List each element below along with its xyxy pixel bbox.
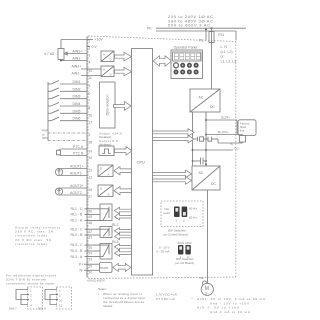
arrow CPU to RL1 coil b <box>115 214 132 220</box>
svg-text:RS485: RS485 <box>100 266 108 270</box>
enclosure dashed box <box>88 36 236 279</box>
wiper arrow <box>66 53 87 55</box>
relay RL3 <box>85 244 113 260</box>
svg-text:0 - 20 mA: 0 - 20 mA <box>157 250 170 254</box>
svg-text:11: 11 <box>89 76 93 80</box>
svg-text:RL3: RL3 <box>112 240 118 244</box>
arrow PTC to CPU <box>115 147 133 155</box>
double arrow RS485 to CPU <box>113 263 131 271</box>
arrow CPU to D/A2 <box>114 187 132 195</box>
svg-text:AOUT1+: AOUT1+ <box>70 165 84 169</box>
svg-text:AOUT1-: AOUT1- <box>70 172 84 176</box>
svg-text:RL2 - B: RL2 - B <box>71 233 84 237</box>
wire AIN2+ <box>81 68 101 70</box>
svg-text:DC/R+: DC/R+ <box>221 116 230 120</box>
svg-text:▪: ▪ <box>192 296 193 300</box>
svg-text:(on Control Board): (on Control Board) <box>163 233 188 237</box>
svg-text:500 to 600V 3 AC: 500 to 600V 3 AC <box>168 23 210 28</box>
svg-text:2: 2 <box>89 47 91 51</box>
PTC evaluation block <box>99 146 114 156</box>
supply conductor designation labels <box>221 45 237 63</box>
svg-text:A: A <box>103 68 105 72</box>
svg-text:link: link <box>240 129 245 133</box>
svg-text:27: 27 <box>89 195 93 199</box>
svg-text:AIN1 AIN2: AIN1 AIN2 <box>178 241 192 245</box>
wire AIN1- to pot bottom <box>61 60 87 62</box>
braking resistor (external) <box>240 135 246 144</box>
buttons row 2 <box>174 70 199 75</box>
arrow opto to CPU <box>114 102 132 111</box>
svg-text:DIN4: DIN4 <box>73 102 81 106</box>
arrow CPU to RL3 coil b <box>115 250 132 256</box>
svg-text:6: 6 <box>89 91 91 95</box>
svg-text:RL2 - C: RL2 - C <box>71 227 84 231</box>
svg-text:DIN6: DIN6 <box>73 117 81 121</box>
wire inverter to motor <box>207 190 209 284</box>
svg-text:4: 4 <box>89 61 91 65</box>
svg-text:And 0 mA to 20 mA: And 0 mA to 20 mA <box>210 310 250 314</box>
svg-text:20: 20 <box>89 209 93 213</box>
analog input ranges <box>192 296 266 314</box>
svg-text:18: 18 <box>89 221 93 225</box>
PE hook at motor <box>203 281 207 285</box>
svg-text:DC: DC <box>210 105 216 109</box>
svg-text:14: 14 <box>89 150 93 154</box>
svg-text:L1, L2, L3: L1, L2, L3 <box>221 59 237 63</box>
svg-text:28: 28 <box>89 141 93 145</box>
rectifier AC/DC <box>190 89 220 112</box>
svg-text:DC-: DC- <box>235 147 240 151</box>
opto-isolation block <box>100 82 116 128</box>
inverter DC/AC <box>192 166 220 190</box>
RS485 interface block <box>100 263 113 273</box>
svg-text:8: 8 <box>89 106 91 110</box>
svg-text:A: A <box>103 53 105 57</box>
relay output labels RL3 <box>71 240 119 259</box>
svg-text:50 Hz: 50 Hz <box>189 216 197 220</box>
svg-text:AOUT2+: AOUT2+ <box>70 184 84 188</box>
svg-text:DIN1: DIN1 <box>73 80 81 84</box>
svg-text:12: 12 <box>89 169 93 173</box>
relay RL2 <box>85 227 113 238</box>
relay RL1 <box>85 204 113 221</box>
node junction on L2 <box>211 27 213 29</box>
svg-text:19: 19 <box>89 215 93 219</box>
DC link rail right <box>205 112 207 166</box>
terminal DC/R+ <box>205 116 237 122</box>
svg-text:13: 13 <box>89 176 93 180</box>
svg-text:A: A <box>108 192 110 196</box>
arrow CPU to inverter b <box>153 177 192 185</box>
svg-text:17: 17 <box>89 121 93 125</box>
svg-text:+10V: +10V <box>95 37 104 41</box>
DIN8 wiring diagram <box>38 287 72 311</box>
svg-text:3: 3 <box>89 54 91 58</box>
svg-text:24: 24 <box>89 252 93 256</box>
node junction on L <box>205 29 207 31</box>
svg-text:DC: DC <box>211 182 217 186</box>
switch DIN5 <box>48 109 87 113</box>
D/A converter U5 <box>98 185 113 197</box>
buttons row 1 <box>174 63 199 68</box>
CPU block <box>132 49 153 276</box>
svg-text:RL3 - B: RL3 - B <box>71 249 84 253</box>
svg-text:29: 29 <box>89 264 93 268</box>
terminal B- <box>218 139 243 146</box>
svg-text:21: 21 <box>89 236 93 240</box>
terminal DC- <box>192 147 240 152</box>
svg-text:30: 30 <box>89 271 93 275</box>
svg-text:16: 16 <box>89 113 93 117</box>
threshold values <box>156 293 177 302</box>
arrow CPU to RL1 coil a <box>115 207 132 213</box>
arrow A/D1 to CPU <box>115 52 132 61</box>
wire 0V select (dash-dot) <box>48 140 87 142</box>
svg-text:P+: P+ <box>79 263 83 267</box>
svg-text:7: 7 <box>89 99 91 103</box>
svg-text:AIN1-: AIN1- <box>73 57 83 61</box>
arrow CPU to chopper a <box>153 129 195 137</box>
svg-text:9: 9 <box>89 133 91 137</box>
DIN7 wiring diagram <box>9 287 43 311</box>
DIP switch 2 <box>182 207 188 218</box>
PE bond corner wire <box>235 31 237 41</box>
relay output labels RL2 <box>71 223 119 237</box>
svg-text:AC: AC <box>199 171 204 175</box>
svg-text:22: 22 <box>89 230 93 234</box>
svg-text:3.7 V DC = on: 3.7 V DC = on <box>156 297 175 301</box>
svg-text:23: 23 <box>89 257 93 261</box>
analog output meter M2 <box>55 184 87 195</box>
motor M 3ph <box>201 283 213 295</box>
svg-text:Opto-isolation: Opto-isolation <box>105 94 109 115</box>
svg-text:AIN1+: AIN1+ <box>73 50 83 54</box>
analog output meter M1 <box>55 165 87 176</box>
svg-text:26: 26 <box>89 188 93 192</box>
svg-text:DIN 7: DIN 7 <box>9 307 17 311</box>
arrow CPU to RL3 coil a <box>115 244 132 250</box>
svg-text:PE: PE <box>200 276 204 280</box>
DC link rail left <box>192 112 194 166</box>
mains line PE <box>156 30 236 32</box>
svg-text:1: 1 <box>89 40 91 44</box>
arrow A/D2 to CPU <box>115 67 132 76</box>
svg-text:10: 10 <box>89 69 93 73</box>
arrow CPU to inverter a <box>153 170 192 178</box>
svg-text:AIN2+: AIN2+ <box>72 65 82 69</box>
DIP switch 1 <box>174 207 180 218</box>
DIP switch AIN2 <box>185 245 190 255</box>
svg-text:(L1, L2): (L1, L2) <box>221 50 233 54</box>
svg-text:AC: AC <box>199 95 204 99</box>
fuse FS1 <box>209 28 224 43</box>
svg-text:RL1 - B: RL1 - B <box>71 213 84 217</box>
svg-text:RL3 - C: RL3 - C <box>71 243 84 247</box>
svg-text:RL1 - A: RL1 - A <box>71 219 83 223</box>
svg-text:AIN2-: AIN2- <box>72 72 82 76</box>
wire +10V output terminal 1 <box>61 39 88 41</box>
svg-text:(on I/O Board): (on I/O Board) <box>175 261 194 265</box>
braking chopper <box>192 137 219 141</box>
terminal numbers <box>89 40 93 275</box>
notes block <box>98 287 145 308</box>
switch DIN4 <box>48 102 87 106</box>
double arrow CPU to operator panel <box>153 56 172 67</box>
svg-text:25: 25 <box>89 246 93 250</box>
arrow CPU to RL2 coil b <box>115 233 132 239</box>
svg-text:AOUT2-: AOUT2- <box>70 191 84 195</box>
potentiometer 4.7 kOhm <box>44 40 87 61</box>
PTC thermistor <box>57 145 88 156</box>
svg-text:DIN2: DIN2 <box>73 87 81 91</box>
svg-text:B+/DC+: B+/DC+ <box>218 130 229 134</box>
svg-text:AOAS140824: AOAS140824 <box>87 279 105 283</box>
switch DIN2 <box>48 87 87 91</box>
svg-text:0 V: 0 V <box>92 45 98 49</box>
svg-text:used: used <box>164 211 171 215</box>
svg-text:follows:: follows: <box>103 304 113 308</box>
svg-text:A: A <box>108 172 110 176</box>
note: additional digital inputs <box>6 274 56 286</box>
DIP switches control board box <box>161 201 203 227</box>
svg-text:Operator Panel: Operator Panel <box>174 46 198 50</box>
RS485 terminals P+ N- <box>79 263 100 273</box>
svg-text:RL2: RL2 <box>112 223 118 227</box>
svg-text:Notes:: Notes: <box>98 287 107 291</box>
supply voltage labels <box>168 14 213 28</box>
PE drop wire <box>205 28 207 40</box>
terminal B+/DC+ <box>205 130 243 136</box>
svg-text:PE: PE <box>147 27 152 31</box>
svg-text:DIN 8: DIN 8 <box>38 307 46 311</box>
DC link capacitor <box>192 158 207 165</box>
DIP switch AIN1 <box>178 245 183 255</box>
node pot bottom <box>60 60 62 62</box>
svg-text:DIN3: DIN3 <box>73 95 81 99</box>
svg-text:L, N: L, N <box>221 45 228 49</box>
relay contact rating note <box>15 226 61 247</box>
svg-text:(resistive load): (resistive load) <box>15 242 47 246</box>
wire 24V select (dash-dot) <box>48 132 87 134</box>
svg-text:4.7 kΩ: 4.7 kΩ <box>44 52 55 56</box>
svg-text:NPN: NPN <box>42 136 48 140</box>
operator panel <box>171 46 203 79</box>
mains line L <box>156 27 246 29</box>
A/D converter U1 <box>101 51 114 62</box>
arrow CPU to chopper b (duplicate gate line) <box>153 135 195 143</box>
arrow CPU to RL2 coil a <box>115 228 132 234</box>
wire fuse to rectifier <box>211 43 213 89</box>
svg-text:RL1 - C: RL1 - C <box>71 207 84 211</box>
svg-text:60 Hz: 60 Hz <box>189 207 197 211</box>
svg-text:DIN5: DIN5 <box>73 109 81 113</box>
switch DIN6 <box>48 117 87 121</box>
digital input common rail <box>47 82 49 141</box>
relay output labels RL1 <box>71 207 84 223</box>
switch DIN1 <box>48 80 87 84</box>
svg-text:11: 11 <box>59 304 62 308</box>
factory fitted link <box>237 120 256 136</box>
svg-text:B-: B- <box>231 142 234 146</box>
wire AIN2- <box>81 75 101 77</box>
terminal strip <box>86 37 88 278</box>
svg-text:CPU: CPU <box>137 160 146 165</box>
PNP or NPN selection note <box>42 129 48 141</box>
display digits <box>174 53 200 59</box>
wire 0V terminal 2 <box>87 46 90 48</box>
DIP switches IO board <box>157 241 192 259</box>
svg-text:PTC B: PTC B <box>73 152 84 156</box>
svg-text:RL3 - A: RL3 - A <box>71 255 83 259</box>
svg-text:3~: 3~ <box>205 292 209 296</box>
svg-text:15: 15 <box>89 156 93 160</box>
A/D converter U2 <box>101 66 114 77</box>
arrow CPU to D/A1 <box>114 167 132 175</box>
node inverter DC input <box>205 163 207 165</box>
svg-text:FS1: FS1 <box>218 33 224 37</box>
svg-text:5: 5 <box>89 84 91 88</box>
svg-text:connections should be made:: connections should be made: <box>6 282 55 286</box>
svg-text:PTC A: PTC A <box>73 145 84 149</box>
switch DIN3 <box>48 95 87 99</box>
svg-text:10: 10 <box>59 299 63 303</box>
svg-text:1.75 V DC = off: 1.75 V DC = off <box>156 293 177 297</box>
svg-text:•: • <box>98 292 99 296</box>
D/A converter U4 <box>98 165 113 177</box>
